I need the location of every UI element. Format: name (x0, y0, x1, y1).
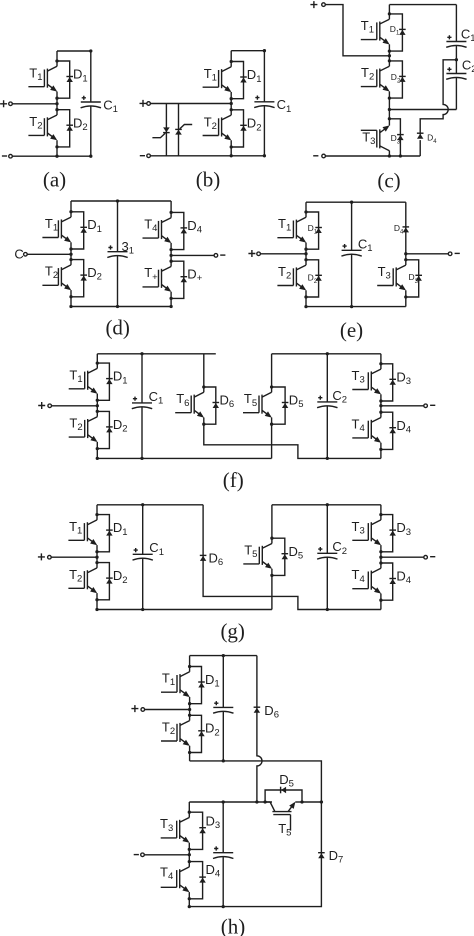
transistor T3 (e) (377, 260, 406, 297)
svg-text:T2: T2 (204, 114, 217, 132)
wire C2 stem top (g) (326, 505, 328, 554)
transistor T5 (g) (243, 538, 272, 575)
wire thyristor leg 2 (b) (178, 104, 180, 156)
svg-text:D4: D4 (396, 418, 411, 436)
wire D3 branch (h) (189, 812, 202, 849)
wire - input (h) (144, 854, 189, 856)
wire + input (f) (52, 405, 98, 407)
wire D2 branch (h) (190, 715, 202, 752)
junction dots (f) (96, 352, 383, 460)
diode D6 (g) (200, 555, 207, 561)
svg-text:T4: T4 (352, 567, 365, 585)
junction dots (d) (69, 199, 172, 308)
svg-text:D7: D7 (329, 848, 344, 866)
wire left stack top (e) (305, 202, 307, 212)
minus terminal sign (e) (455, 252, 460, 254)
wire thyristor 2 gate (b) (180, 125, 192, 129)
junction dots (g) (95, 503, 382, 611)
transistor T4 (g) (352, 563, 381, 600)
svg-text:T6: T6 (176, 391, 189, 409)
wire top rail (c) (389, 4, 456, 6)
diode D4 (c) (417, 133, 424, 139)
svg-text:T1: T1 (29, 65, 42, 83)
capacitor C1 (c) (446, 35, 466, 47)
wire D2 branch (d) (71, 260, 84, 297)
wire bottom rail (b) (150, 155, 264, 157)
wire left stack bottom (e) (305, 297, 307, 307)
wire bottom mid (h) (188, 849, 190, 861)
transistor T5 (h) (265, 802, 302, 831)
diode D1 (h) (198, 682, 205, 688)
transistor T2 (c) (361, 61, 390, 98)
output terminal - (e) (448, 252, 452, 256)
wire left stack top (g) (96, 505, 98, 515)
wire left stack bottom (g) (96, 600, 98, 610)
diode D4 (f) (389, 428, 396, 434)
wire T5 leg bottom (f) (271, 424, 273, 458)
transistor T4 (d) (143, 212, 172, 249)
wire + input (g) (51, 556, 97, 558)
wire top rail (e) (306, 201, 406, 203)
capacitor C1 (g) (133, 548, 153, 560)
diode D1 (a) (66, 77, 73, 83)
diode D1 (g) (106, 530, 113, 536)
diode D2 (e) (315, 275, 322, 281)
wire left top rail (g) (97, 504, 203, 506)
svg-text:D1: D1 (113, 369, 128, 387)
diode D6 (f) (213, 403, 220, 409)
wire C1 stem bottom (e) (351, 254, 353, 307)
wire thyristor leg 1 (b) (165, 104, 167, 156)
wire D4 branch (g) (381, 563, 393, 600)
capacitor bottom module (h) (213, 846, 233, 858)
wire D4 branch (h) (189, 862, 202, 899)
svg-text:T5: T5 (244, 391, 257, 409)
wire top rail (b) (231, 50, 264, 52)
wire bottom rail (d) (71, 306, 171, 308)
wire top module bottom rail (h) (190, 761, 322, 802)
transistor T1 (b) (203, 62, 232, 99)
diode D5 (g) (282, 554, 289, 560)
svg-text:D+: D+ (187, 267, 202, 285)
wire cap2 stem bottom (h) (222, 856, 224, 906)
minus terminal sign (h) (134, 854, 139, 856)
svg-text:D4: D4 (206, 862, 221, 880)
wire C2 stem top (f) (326, 354, 328, 402)
transistor T1 (f) (69, 363, 98, 400)
wire stack top (b) (230, 51, 232, 62)
wire right top rail (g) (272, 504, 381, 506)
output terminal - (c) (322, 154, 326, 158)
wire W1 clamp (c) (389, 109, 456, 111)
plus terminal sign (h) (131, 705, 138, 712)
svg-text:(d): (d) (105, 316, 130, 340)
svg-text:(b): (b) (196, 168, 221, 192)
diode D2 (g) (106, 578, 113, 584)
svg-text:T5: T5 (278, 821, 291, 839)
plus terminal sign (b) (140, 100, 147, 107)
wire stack top (a) (56, 51, 58, 61)
svg-text:D2: D2 (247, 116, 262, 134)
wire left top rail (f) (97, 353, 216, 355)
wire C1 stem top (e) (351, 202, 353, 250)
output terminal - (b) (147, 154, 151, 158)
wire D1 branch (h) (190, 667, 202, 704)
thyristor 2 (b) (175, 129, 182, 134)
svg-text:D5: D5 (289, 544, 304, 562)
svg-text:D3: D3 (396, 520, 411, 538)
svg-text:D2: D2 (73, 115, 88, 133)
svg-text:T2: T2 (69, 567, 82, 585)
wire bottom stack top (h) (188, 802, 190, 812)
minus terminal sign (f) (430, 404, 435, 406)
svg-text:D2: D2 (113, 417, 128, 435)
svg-text:T1: T1 (361, 18, 374, 36)
input terminal - (h) (141, 853, 145, 857)
wire D4 branch (f) (381, 412, 393, 449)
diode D2 (h) (198, 731, 205, 737)
svg-text:T5: T5 (244, 542, 257, 560)
diode D2 (a) (66, 125, 73, 131)
wire - output (e) (406, 253, 449, 255)
diode D1 (e) (315, 228, 322, 234)
wire D2 branch (g) (97, 563, 109, 600)
diode D1 (b) (240, 77, 247, 83)
svg-text:D1: D1 (73, 67, 88, 85)
wire bottom module top rail left (h) (189, 801, 272, 803)
transistor T1 (c) (361, 14, 390, 51)
svg-text:T2: T2 (162, 719, 175, 737)
wire right stack bottom (e) (405, 297, 407, 307)
input terminal C (d) (24, 253, 28, 257)
transistor T2 (d) (42, 260, 71, 297)
svg-text:T2: T2 (29, 114, 42, 132)
wire right stack bottom (f) (380, 449, 382, 458)
svg-text:D2: D2 (87, 265, 102, 283)
plus terminal sign (a) (0, 100, 7, 107)
wire D3 branch (f) (381, 364, 393, 401)
svg-text:T3: T3 (362, 129, 375, 147)
transistor T1 (a) (28, 61, 57, 98)
wire right top rail (f) (272, 353, 381, 355)
wire stack bottom (a) (56, 147, 58, 156)
wire T6 leg top (f) (203, 354, 205, 387)
wire right stack top (f) (380, 354, 382, 364)
wire C1 stem top (f) (141, 354, 143, 403)
wire D4 to rail (c) (419, 140, 421, 156)
svg-text:D1: D1 (247, 67, 262, 85)
wire D5 branch (g) (272, 538, 285, 575)
wire D2 branch (f) (97, 411, 109, 448)
capacitor 3-1 (d) (107, 245, 127, 257)
diode D4 (e) (403, 227, 410, 233)
wire left mid (d) (70, 249, 72, 260)
wire D3 branch (c) (389, 119, 400, 156)
svg-text:D3: D3 (206, 814, 221, 832)
wire left stack bottom (f) (96, 449, 98, 459)
wire stack bottom (b) (230, 147, 232, 156)
wire left mid (g) (96, 552, 98, 563)
capacitor C1 (f) (132, 397, 152, 409)
wire top rail (h) (190, 655, 257, 657)
diode D3 (h) (199, 828, 206, 834)
diode D2 (d) (80, 275, 87, 281)
transistor T1 (g) (68, 515, 97, 552)
input terminal + (f) (48, 404, 52, 408)
wire C1 stem (c) (455, 5, 457, 42)
wire clamp hop (c) (420, 60, 456, 135)
svg-text:T3: T3 (378, 264, 391, 282)
capacitor C2 (f) (317, 396, 337, 408)
diode D3 (g) (389, 530, 396, 536)
transistor T2 (e) (277, 260, 306, 297)
svg-text:C2: C2 (462, 57, 474, 75)
wire right mid (e) (405, 254, 407, 260)
output terminal - (d) (214, 254, 218, 258)
svg-text:T1: T1 (45, 216, 58, 234)
svg-text:D5: D5 (279, 772, 294, 790)
wire C1 stem bottom (f) (141, 407, 143, 459)
svg-text:C2: C2 (332, 388, 347, 406)
svg-text:D2: D2 (113, 568, 128, 586)
wire D4 branch (d) (171, 212, 184, 249)
wire left mid (e) (305, 249, 307, 260)
wire + input (e) (260, 253, 306, 255)
transistor T1 (d) (42, 212, 71, 249)
wire C input (d) (27, 253, 71, 255)
wire cap stem top (d) (117, 201, 119, 252)
svg-text:C1: C1 (277, 97, 292, 115)
diode D4 (h) (199, 877, 206, 883)
capacitor C1 (a) (81, 96, 101, 108)
wire D2 branch (c) (389, 61, 402, 98)
wire T6 leg bottom (f) (204, 424, 381, 458)
capacitor C1 (e) (341, 244, 361, 256)
wire D6 leg (g) (203, 505, 381, 610)
svg-text:C1: C1 (149, 540, 164, 558)
svg-text:T1: T1 (162, 671, 175, 689)
wire cap stem bottom (d) (117, 255, 119, 306)
svg-text:(a): (a) (43, 168, 66, 192)
diode D3 (e) (415, 275, 422, 281)
input terminal + (e) (257, 252, 261, 256)
plus terminal sign (c) (310, 1, 317, 8)
diode D1 (c) (399, 29, 406, 35)
wire top rail (a) (57, 50, 91, 52)
wire right stack bottom (g) (380, 600, 382, 609)
wire cap2 stem top (h) (222, 802, 224, 853)
transistor T3 (h) (161, 812, 190, 849)
wire top stack bottom (h) (189, 753, 191, 761)
svg-text:(f): (f) (223, 468, 244, 492)
wire left mid (f) (96, 400, 98, 411)
wire D3 branch (e) (406, 260, 419, 297)
wire bottom module bottom rail (h) (189, 802, 321, 907)
wire node T2-T3 (c) (388, 98, 390, 119)
svg-text:T2: T2 (361, 65, 374, 83)
diode D3 (f) (389, 379, 396, 385)
minus terminal sign (g) (430, 556, 435, 558)
svg-text:T+: T+ (144, 265, 158, 283)
svg-text:D1: D1 (87, 217, 102, 235)
svg-text:C1: C1 (358, 236, 373, 254)
wire - output (g) (381, 556, 424, 558)
wire D5 branch (f) (272, 387, 286, 424)
wire D1 branch (f) (97, 363, 109, 400)
wire left stack top (d) (70, 201, 72, 212)
junction dots (e) (304, 201, 407, 309)
wire C2 stem bottom (f) (326, 406, 328, 459)
transistor T2 (h) (161, 715, 190, 752)
svg-text:T1: T1 (69, 519, 82, 537)
input terminal + (c) (322, 3, 326, 7)
svg-text:D4: D4 (427, 133, 437, 146)
svg-text:T2: T2 (69, 416, 82, 434)
transistor T5 (f) (243, 387, 272, 424)
svg-text:T1: T1 (204, 66, 217, 84)
svg-text:(g): (g) (220, 619, 245, 643)
transistor T2 (b) (203, 110, 232, 147)
diode D2 (c) (399, 76, 406, 82)
wire bottom rail (c) (325, 155, 420, 157)
svg-text:T2: T2 (278, 264, 291, 282)
minus terminal sign (b) (140, 155, 145, 157)
wire D+ branch (d) (171, 261, 184, 298)
output terminal - (g) (424, 555, 428, 559)
capacitor C1 (b) (254, 96, 274, 108)
wire top rail (d) (71, 200, 171, 202)
transistor T1 (e) (277, 212, 306, 249)
wire C1 to bottom (a) (90, 106, 92, 157)
svg-text:T4: T4 (144, 216, 157, 234)
svg-text:T4: T4 (160, 865, 173, 883)
wire mid node (b) (230, 99, 232, 110)
input terminal + (h) (141, 708, 145, 712)
wire D2 branch (a) (57, 110, 70, 147)
minus terminal sign (a) (2, 155, 7, 157)
capacitor top module (h) (213, 701, 233, 713)
wire left stack bottom (d) (70, 297, 72, 307)
minus terminal sign (c) (313, 155, 318, 157)
diode D4 (d) (181, 228, 188, 234)
svg-text:D5: D5 (289, 393, 304, 411)
svg-text:D2: D2 (391, 72, 401, 85)
diode D5 (f) (282, 403, 289, 409)
wire mid node (a) (56, 98, 58, 110)
wire top mid (h) (189, 704, 191, 716)
svg-text:(c): (c) (377, 169, 400, 193)
transistor T2 (f) (69, 411, 98, 448)
svg-text:T1: T1 (278, 216, 291, 234)
wire C1 to bottom (b) (263, 105, 265, 155)
wire - output (f) (381, 405, 424, 407)
svg-text:(h): (h) (221, 915, 246, 936)
input terminal + (g) (48, 555, 52, 559)
wire + input (b) (150, 103, 231, 105)
diode D6 (h) (254, 707, 261, 713)
svg-text:(e): (e) (340, 318, 363, 342)
svg-text:D1: D1 (113, 520, 128, 538)
diode D2 (f) (106, 427, 113, 433)
transistor T2 (a) (28, 110, 57, 147)
transistor T4 (f) (352, 412, 381, 449)
transistor T4 (h) (161, 862, 190, 899)
diode D3 (c) (397, 135, 404, 141)
wire D1 branch (e) (306, 212, 319, 249)
svg-text:T4: T4 (352, 416, 365, 434)
wire D1 branch (a) (57, 61, 70, 98)
transistor T3 (g) (352, 515, 381, 552)
svg-text:T3: T3 (352, 519, 365, 537)
wire C2 to W1 (c) (455, 77, 457, 109)
input terminal + (b) (147, 102, 151, 106)
diode D1 (d) (80, 227, 87, 233)
junction dots (a) (55, 49, 92, 158)
diode D5 (h) (281, 787, 287, 794)
svg-text:D6: D6 (220, 393, 235, 411)
svg-text:D6: D6 (264, 703, 279, 721)
wire C1-C2 node (c) (455, 45, 457, 60)
diode D1 (f) (106, 379, 113, 385)
wire + feed (c) (325, 5, 389, 56)
wire D1 branch (c) (389, 14, 402, 51)
svg-text:T1: T1 (69, 367, 82, 385)
transistor T3 (f) (352, 364, 381, 401)
svg-text:31: 31 (122, 239, 135, 257)
transistor T3 (c) (361, 119, 390, 156)
wire bottom stack bottom (h) (188, 899, 190, 907)
output terminal - (f) (424, 404, 428, 408)
plus terminal sign (g) (38, 553, 45, 560)
wire D6 branch (f) (204, 387, 216, 424)
wire cap1 stem bottom (h) (222, 711, 224, 761)
wire T5 leg top (g) (271, 505, 273, 538)
wire + input (h) (145, 709, 190, 711)
wire left bottom rail (g) (97, 609, 272, 611)
transistor T6 (f) (175, 387, 204, 424)
wire bottom rail (a) (12, 155, 91, 157)
svg-text:D3: D3 (396, 369, 411, 387)
wire - output (d) (171, 254, 214, 256)
wire D1 branch (b) (231, 62, 243, 99)
output terminal - (a) (9, 154, 13, 158)
capacitor C2 (g) (317, 547, 337, 559)
wire D1 branch (d) (71, 212, 84, 249)
plus terminal sign (e) (248, 250, 255, 257)
minus terminal sign (d) (220, 254, 225, 256)
wire C1 stem top (g) (142, 505, 144, 555)
transistor T2 (g) (68, 563, 97, 600)
svg-text:D4: D4 (396, 569, 411, 587)
wire right stack top (g) (380, 505, 382, 515)
svg-text:C2: C2 (332, 539, 347, 557)
svg-text:D2: D2 (308, 273, 318, 286)
wire right mid (f) (380, 401, 382, 412)
wire right mid (d) (170, 250, 172, 262)
wire D3 branch (g) (381, 515, 393, 552)
svg-text:C1: C1 (103, 97, 118, 115)
svg-text:T3: T3 (352, 368, 365, 386)
input terminal + (a) (9, 102, 13, 106)
svg-text:C1: C1 (461, 27, 474, 45)
wire C2 stem (c) (455, 60, 457, 74)
diode D4 (g) (389, 579, 396, 585)
wire stack top (c) (388, 5, 390, 14)
wire T5 leg bottom (g) (271, 575, 273, 609)
wire bottom module top rail right (h) (302, 801, 321, 803)
wire C1 branch (b) (263, 51, 265, 102)
wire thyristor 1 gate (b) (152, 133, 165, 138)
